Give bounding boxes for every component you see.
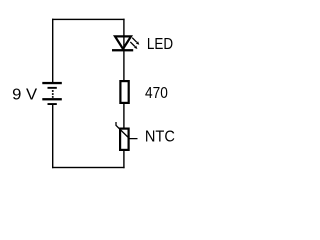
wire right (top rail through LED, R, NTC to bottom rail) bbox=[123, 19, 124, 169]
thermistor NTC (temperature-coefficient stroke: vertical tick, diagonal, horizontal foot) bbox=[116, 122, 138, 139]
battery B1 (9 V multicell) bbox=[42, 82, 62, 105]
LED D1 (diode triangle + cathode bar) bbox=[112, 36, 133, 51]
LED light arrow 2 bbox=[130, 42, 137, 49]
LED light arrow 1 bbox=[132, 38, 139, 45]
svg-text:9 V: 9 V bbox=[12, 86, 37, 103]
resistor R1 (box) bbox=[120, 81, 128, 103]
wire top bbox=[52, 19, 125, 20]
svg-text:470: 470 bbox=[145, 85, 168, 102]
wire bottom bbox=[52, 167, 125, 168]
wire left lower (battery - to bottom rail) bbox=[52, 105, 53, 168]
wire left upper (top rail to battery +) bbox=[52, 19, 53, 82]
svg-text:NTC: NTC bbox=[145, 128, 175, 145]
svg-text:LED: LED bbox=[147, 36, 173, 53]
thermistor NTC (box) bbox=[120, 129, 129, 150]
